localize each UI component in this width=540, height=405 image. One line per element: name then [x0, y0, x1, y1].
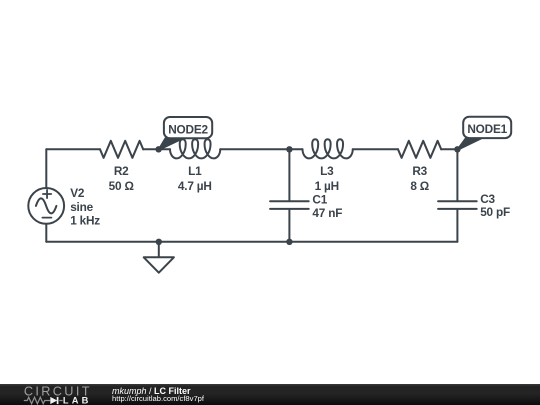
svg-text:sine: sine [70, 200, 93, 214]
svg-text:L3: L3 [320, 164, 334, 178]
svg-text:C1: C1 [312, 192, 327, 206]
svg-text:V2: V2 [70, 186, 85, 200]
svg-text:4.7 µH: 4.7 µH [178, 179, 212, 193]
svg-text:R3: R3 [412, 164, 427, 178]
svg-text:LAB: LAB [63, 395, 92, 405]
svg-text:1 kHz: 1 kHz [70, 214, 100, 228]
svg-text:1 µH: 1 µH [315, 179, 339, 193]
svg-text:L1: L1 [188, 164, 202, 178]
svg-text:C3: C3 [480, 192, 495, 206]
svg-text:R2: R2 [114, 164, 129, 178]
svg-text:NODE1: NODE1 [467, 122, 507, 136]
svg-text:8 Ω: 8 Ω [410, 179, 429, 193]
svg-text:47 nF: 47 nF [312, 206, 342, 220]
svg-text:50 Ω: 50 Ω [109, 179, 134, 193]
svg-text:NODE2: NODE2 [168, 122, 208, 136]
svg-text:50 pF: 50 pF [480, 205, 510, 219]
